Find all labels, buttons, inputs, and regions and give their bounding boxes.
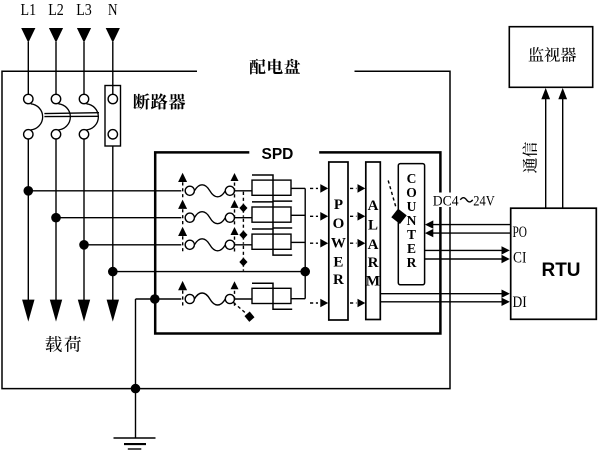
svg-text:RTU: RTU: [541, 260, 580, 281]
svg-text:C: C: [407, 171, 417, 186]
svg-text:T: T: [407, 227, 416, 242]
svg-text:CI: CI: [513, 249, 526, 266]
svg-text:O: O: [406, 185, 417, 200]
svg-text:M: M: [366, 274, 380, 290]
svg-text:A: A: [368, 237, 379, 253]
svg-text:PO: PO: [513, 224, 528, 241]
svg-text:E: E: [333, 255, 343, 271]
svg-text:A: A: [368, 198, 379, 214]
svg-text:L: L: [368, 218, 378, 234]
svg-text:R: R: [333, 272, 344, 288]
svg-text:L3: L3: [76, 0, 92, 19]
svg-text:L1: L1: [21, 0, 37, 19]
svg-text:P: P: [334, 197, 343, 213]
svg-text:N: N: [407, 213, 417, 228]
svg-text:24V: 24V: [473, 193, 495, 209]
svg-text:L2: L2: [48, 0, 64, 19]
svg-text:DC4: DC4: [433, 193, 459, 209]
svg-text:R: R: [407, 255, 417, 270]
svg-text:E: E: [407, 241, 416, 256]
svg-text:N: N: [108, 0, 118, 19]
svg-text:SPD: SPD: [262, 146, 294, 163]
svg-text:DI: DI: [513, 294, 527, 311]
svg-text:U: U: [407, 199, 417, 214]
svg-text:O: O: [333, 216, 345, 232]
svg-text:R: R: [368, 255, 379, 271]
svg-text:W: W: [331, 236, 346, 252]
